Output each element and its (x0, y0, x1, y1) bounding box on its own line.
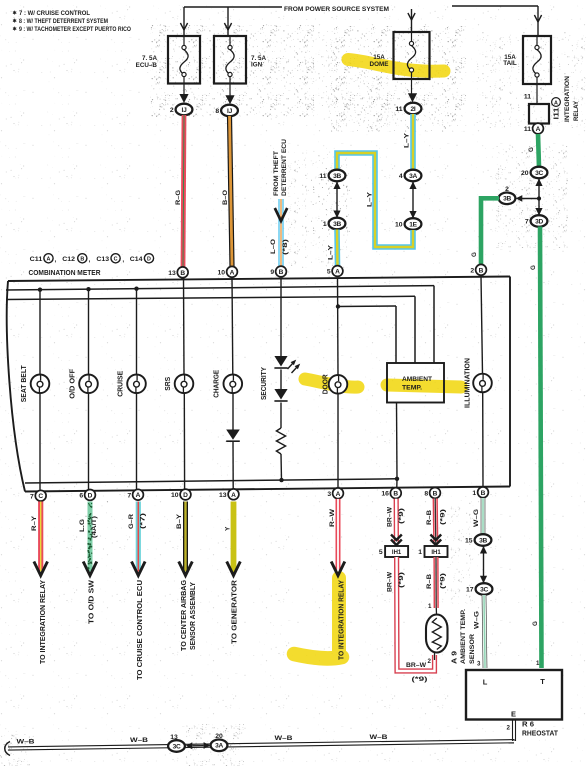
svg-text:16: 16 (381, 491, 389, 498)
svg-text:8 : W/ THEFT DETERRENT SYSTEM: 8 : W/ THEFT DETERRENT SYSTEM (19, 18, 108, 25)
svg-text:TO INTEGRATION RELAY: TO INTEGRATION RELAY (337, 580, 346, 660)
svg-text:B: B (180, 270, 185, 277)
svg-text:3B: 3B (333, 221, 341, 228)
svg-text:11: 11 (524, 94, 531, 101)
svg-text:D: D (88, 492, 93, 499)
svg-text:2: 2 (507, 725, 511, 732)
svg-text:ILLUMINATION: ILLUMINATION (465, 358, 472, 408)
svg-text:L–Y: L–Y (403, 132, 410, 148)
svg-text:R–G: R–G (175, 190, 182, 205)
svg-text:O/D OFF: O/D OFF (70, 368, 77, 399)
svg-text:W–B: W–B (17, 739, 35, 746)
svg-text:7: 7 (525, 219, 529, 226)
svg-text:L: L (483, 678, 488, 687)
svg-text:DOOR: DOOR (323, 374, 330, 394)
svg-text:IH1: IH1 (392, 550, 402, 556)
svg-text:4: 4 (399, 173, 403, 180)
svg-text:L–O: L–O (270, 239, 277, 254)
svg-text:13: 13 (219, 492, 227, 499)
svg-text:13: 13 (170, 734, 178, 741)
svg-text:2: 2 (428, 658, 432, 665)
svg-text:W–G: W–G (473, 611, 480, 629)
svg-text:B: B (279, 269, 284, 276)
svg-text:B: B (433, 490, 438, 497)
svg-text:1: 1 (536, 660, 540, 667)
svg-text:R 6: R 6 (522, 722, 534, 729)
svg-text:3A: 3A (215, 743, 223, 750)
svg-text:8: 8 (215, 108, 219, 115)
svg-text:20: 20 (215, 733, 223, 740)
svg-text:A: A (336, 491, 341, 498)
svg-text:IGN: IGN (251, 62, 263, 69)
svg-text:B: B (481, 490, 486, 497)
svg-text:15: 15 (465, 538, 473, 545)
svg-text:DOME: DOME (370, 61, 389, 68)
svg-text:TO CENTER AIRBAG: TO CENTER AIRBAG (179, 580, 188, 651)
svg-text:I11: I11 (554, 107, 561, 119)
svg-text:BR–W: BR–W (386, 571, 393, 592)
svg-text:SENSOR: SENSOR (469, 634, 476, 664)
svg-text:RELAY: RELAY (573, 101, 580, 121)
svg-text:11: 11 (524, 126, 531, 133)
svg-text:G: G (471, 252, 478, 257)
svg-text:Y: Y (224, 526, 231, 531)
svg-text:IH1: IH1 (431, 550, 441, 556)
svg-text:1: 1 (428, 603, 432, 610)
svg-text:3C: 3C (535, 170, 543, 177)
svg-text:W–B: W–B (130, 737, 148, 744)
svg-text:A: A (231, 492, 236, 499)
svg-text:15A: 15A (373, 54, 385, 61)
svg-text:11: 11 (319, 173, 326, 180)
svg-text:,: , (122, 257, 124, 264)
svg-text:3C: 3C (173, 743, 181, 750)
svg-text:,: , (89, 257, 91, 264)
svg-text:10: 10 (218, 269, 226, 276)
svg-text:C: C (114, 257, 118, 263)
svg-text:TO CRUISE CONTROL ECU: TO CRUISE CONTROL ECU (135, 580, 144, 680)
svg-text:R–W: R–W (329, 508, 336, 527)
svg-text:RHEOSTAT: RHEOSTAT (522, 731, 559, 738)
svg-text:(*8): (*8) (282, 239, 289, 255)
svg-text:3A: 3A (409, 173, 417, 180)
svg-text:T: T (540, 677, 545, 686)
svg-text:3: 3 (327, 491, 331, 498)
svg-text:7: 7 (127, 492, 131, 499)
svg-text:2: 2 (470, 267, 474, 274)
svg-text:5: 5 (327, 269, 331, 276)
svg-text:R–Y: R–Y (31, 515, 38, 531)
svg-text:(*9): (*9) (439, 509, 446, 525)
svg-text:C12: C12 (62, 256, 75, 263)
svg-text:B: B (393, 491, 398, 498)
svg-text:CRUISE: CRUISE (118, 370, 125, 396)
svg-text:C13: C13 (96, 256, 109, 263)
svg-text:A: A (230, 269, 235, 276)
svg-text:W–G: W–G (473, 509, 480, 527)
svg-text:BR–W: BR–W (406, 662, 427, 669)
svg-text:C: C (38, 493, 43, 500)
svg-text:7. 5A: 7. 5A (142, 55, 158, 62)
svg-text:CHARGE: CHARGE (214, 370, 221, 398)
svg-text:TAIL: TAIL (503, 60, 517, 67)
svg-text:AMBIENT: AMBIENT (402, 376, 432, 383)
svg-text:(4A/T): (4A/T) (91, 516, 98, 538)
svg-text:SENSOR ASSEMBLY: SENSOR ASSEMBLY (188, 582, 197, 650)
svg-text:BR–W: BR–W (386, 506, 393, 527)
svg-text:2: 2 (170, 107, 174, 114)
svg-text:B–Y: B–Y (176, 513, 183, 529)
svg-text:13: 13 (168, 270, 176, 277)
svg-text:C14: C14 (130, 256, 143, 263)
svg-text:B: B (479, 267, 484, 274)
svg-text:1: 1 (472, 490, 476, 497)
svg-text:9: 9 (270, 269, 274, 276)
svg-text:10: 10 (395, 222, 403, 229)
svg-text:B–O: B–O (222, 190, 229, 205)
svg-text:R–B: R–B (426, 510, 433, 525)
svg-text:DETERRENT ECU: DETERRENT ECU (281, 139, 288, 196)
svg-text:,: , (55, 257, 57, 264)
svg-text:9 : W/ TACHOMETER EXCEPT PUERT: 9 : W/ TACHOMETER EXCEPT PUERTO RICO (19, 26, 131, 33)
svg-text:ECU–B: ECU–B (136, 62, 158, 69)
svg-text:C11: C11 (30, 256, 43, 263)
svg-text:(*7): (*7) (139, 513, 146, 529)
svg-text:(*9): (*9) (439, 573, 446, 589)
svg-text:TEMP.: TEMP. (402, 385, 422, 392)
svg-text:(*9): (*9) (412, 676, 428, 683)
svg-text:A: A (47, 257, 51, 263)
svg-text:3B: 3B (479, 537, 487, 544)
svg-text:A: A (536, 126, 541, 133)
svg-text:1E: 1E (409, 221, 417, 228)
svg-text:B: B (80, 257, 84, 263)
svg-text:TO O/D SW: TO O/D SW (87, 580, 96, 624)
svg-text:1: 1 (323, 221, 327, 228)
svg-text:5: 5 (379, 549, 383, 556)
svg-text:E: E (511, 710, 516, 719)
svg-text:17: 17 (466, 587, 474, 594)
svg-text:3C: 3C (480, 586, 488, 593)
svg-text:L–Y: L–Y (327, 244, 334, 260)
svg-text:SEAT BELT: SEAT BELT (21, 365, 28, 403)
svg-text:FROM POWER SOURCE SYSTEM: FROM POWER SOURCE SYSTEM (284, 6, 389, 13)
svg-text:D: D (183, 492, 188, 499)
svg-text:A 9: A 9 (452, 651, 459, 664)
svg-text:AMBIENT TEMP.: AMBIENT TEMP. (460, 609, 467, 664)
svg-text:10: 10 (171, 492, 179, 499)
svg-text:20: 20 (521, 170, 529, 177)
svg-text:2: 2 (505, 186, 509, 193)
svg-text:6: 6 (79, 493, 83, 500)
svg-text:COMBINATION METER: COMBINATION METER (29, 270, 101, 277)
svg-text:1: 1 (418, 549, 422, 556)
svg-text:3B: 3B (333, 173, 341, 180)
svg-text:L.G: L.G (79, 519, 86, 532)
svg-text:A: A (335, 269, 340, 276)
svg-text:L–Y: L–Y (366, 191, 373, 207)
svg-text:G: G (532, 621, 539, 626)
svg-text:8: 8 (424, 491, 428, 498)
svg-text:W–B: W–B (275, 735, 293, 742)
svg-text:3D: 3D (535, 218, 543, 225)
svg-text:7 : W/ CRUISE CONTROL: 7 : W/ CRUISE CONTROL (19, 10, 90, 17)
svg-text:FROM THEFT: FROM THEFT (273, 151, 280, 196)
svg-text:TO INTEGRATION RELAY: TO INTEGRATION RELAY (38, 580, 47, 664)
svg-text:(*9): (*9) (398, 572, 405, 588)
svg-text:G: G (530, 265, 537, 270)
svg-text:3B: 3B (503, 196, 511, 203)
svg-text:11: 11 (395, 106, 402, 113)
svg-text:7: 7 (30, 493, 34, 500)
svg-text:W–B: W–B (370, 734, 388, 741)
svg-text:SECURITY: SECURITY (261, 367, 268, 400)
svg-text:A: A (136, 492, 141, 499)
svg-text:TO GENERATOR: TO GENERATOR (230, 579, 239, 644)
svg-text:SRS: SRS (165, 376, 172, 390)
svg-text:IJ: IJ (227, 108, 233, 115)
svg-text:2I: 2I (411, 106, 416, 113)
svg-text:3: 3 (477, 661, 481, 668)
svg-text:G–R: G–R (128, 514, 135, 529)
svg-text:(*9): (*9) (398, 508, 405, 524)
svg-text:A: A (554, 100, 558, 106)
svg-text:D: D (147, 257, 151, 263)
svg-text:IJ: IJ (182, 107, 188, 114)
svg-text:INTEGRATION: INTEGRATION (564, 76, 571, 122)
svg-text:R–B: R–B (426, 574, 433, 589)
svg-text:G: G (528, 147, 535, 152)
